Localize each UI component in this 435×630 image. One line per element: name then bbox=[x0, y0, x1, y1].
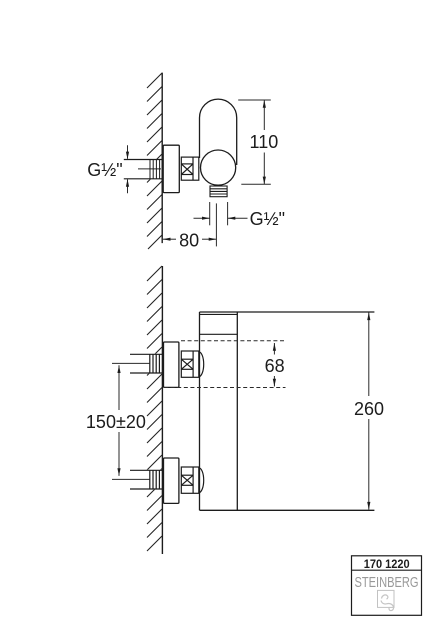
wall hatching (bottom view) bbox=[147, 266, 162, 551]
bottom inlet pipe (bottom view) bbox=[130, 470, 162, 489]
bottom check valve (bottom view) bbox=[181, 467, 203, 493]
connection valve box (top view) bbox=[181, 157, 199, 180]
dim 68 dashed lines bbox=[164, 341, 286, 388]
svg-text:STEINBERG: STEINBERG bbox=[354, 573, 418, 590]
svg-text:150±20: 150±20 bbox=[86, 412, 146, 432]
mixer body (bottom view) bbox=[200, 312, 375, 510]
dim G1/2 left (top view) bbox=[127, 145, 129, 193]
bottom inlet extension line bbox=[112, 478, 150, 480]
svg-text:68: 68 bbox=[265, 356, 285, 376]
title block frame bbox=[352, 556, 422, 616]
dim 110 (top view) bbox=[238, 100, 271, 184]
pipe thread lines (top view) bbox=[150, 160, 160, 179]
svg-text:110: 110 bbox=[250, 132, 279, 152]
dim 260 bbox=[368, 312, 370, 509]
top check valve (bottom view) bbox=[181, 351, 203, 377]
logo square bbox=[378, 590, 395, 607]
dim G1/2 bottom (top view) bbox=[194, 202, 248, 225]
dim 68 bbox=[273, 343, 275, 387]
top escutcheon (bottom view) bbox=[164, 342, 179, 387]
svg-text:G½": G½" bbox=[87, 160, 122, 180]
dim 80 (top view) bbox=[163, 203, 217, 246]
outlet elbow circle (top view) bbox=[201, 150, 236, 185]
svg-text:260: 260 bbox=[354, 399, 384, 419]
svg-text:170 1220: 170 1220 bbox=[364, 559, 410, 571]
body cap lines (bottom view) bbox=[200, 314, 238, 334]
pipe center line (top view) bbox=[138, 168, 161, 170]
dim 150±20 bbox=[118, 365, 120, 476]
body capsule (top view) bbox=[200, 99, 237, 165]
outlet thread (top view) bbox=[210, 186, 227, 197]
wall hatching (top view) bbox=[147, 73, 162, 249]
wall (bottom view) bbox=[161, 266, 163, 554]
escutcheon flange (top view) bbox=[163, 145, 179, 192]
logo phoenix swirl bbox=[381, 595, 394, 611]
svg-text:80: 80 bbox=[179, 230, 199, 250]
top inlet pipe (bottom view) bbox=[130, 354, 162, 373]
supply pipe (top view) bbox=[124, 160, 162, 179]
top inlet extension line bbox=[112, 362, 150, 364]
svg-text:G½": G½" bbox=[250, 209, 285, 229]
wall (top view) bbox=[161, 73, 163, 244]
bottom escutcheon (bottom view) bbox=[164, 458, 179, 503]
